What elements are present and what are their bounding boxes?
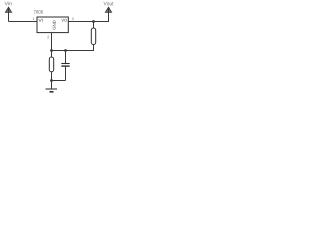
regulator U1 7806 body: [37, 17, 68, 33]
resistor R1: [49, 57, 53, 72]
pin number 3: [72, 17, 74, 20]
wire capacitor to ground node: [52, 80, 66, 82]
power symbol Vin: [5, 7, 11, 12]
wire R1 bottom lead: [51, 72, 53, 89]
pin number 1: [33, 17, 35, 20]
power symbol Vout: [105, 7, 111, 12]
wire VO pin to Vout corner: [68, 21, 109, 23]
junction dot at VO wire / R2: [92, 20, 95, 23]
junction dot ground node: [50, 79, 53, 82]
wire R2 bottom to cap node: [51, 50, 94, 52]
pin label VO: [61, 19, 66, 22]
junction dot GND pin / horizontal wire: [50, 49, 53, 52]
wire Vin vertical: [8, 12, 10, 21]
pin label VI: [38, 19, 42, 22]
wire R2 bottom lead: [93, 45, 95, 51]
resistor R2: [91, 28, 95, 45]
pin number 2: [47, 36, 49, 39]
junction dot capacitor branch: [64, 49, 67, 52]
capacitor C1: [61, 64, 69, 67]
wire capacitor top lead: [65, 51, 67, 64]
wire GND pin down: [51, 33, 53, 57]
ground symbol: [46, 89, 58, 92]
label 7806: [34, 10, 43, 14]
wire capacitor bottom lead: [65, 66, 67, 80]
wire R2 top lead: [93, 22, 95, 29]
node Vout label: [104, 2, 114, 6]
pin label GND (rotated): [53, 20, 56, 29]
wire Vin to VI pin: [9, 21, 38, 23]
node Vin label: [5, 2, 12, 6]
wire Vout vertical: [108, 12, 110, 21]
